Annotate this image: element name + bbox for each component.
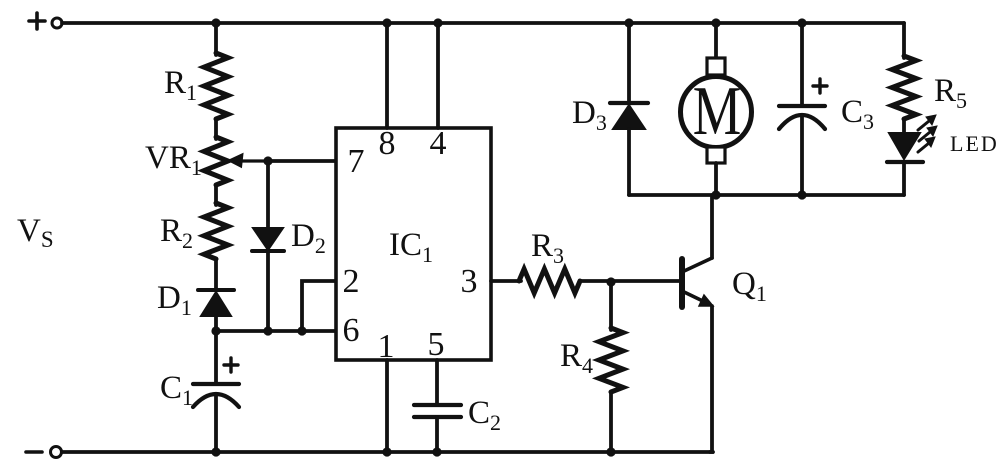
wire top rail to R1 xyxy=(214,23,218,55)
resistor R5 xyxy=(892,56,916,119)
wire node to R4 xyxy=(609,281,613,330)
diode D1 xyxy=(198,290,234,316)
potentiometer VR1 xyxy=(204,137,268,185)
junction ground / C1 xyxy=(211,447,220,456)
wire VR1 to R2 xyxy=(214,185,218,205)
motor M xyxy=(681,23,752,195)
junction base / R4 xyxy=(606,277,615,286)
wire C2 to ground rail xyxy=(435,417,439,452)
transistor Q1 xyxy=(682,258,713,307)
wire pin 1 to ground rail xyxy=(385,360,389,452)
junction load rail / C3 xyxy=(797,190,806,199)
wire R4 to ground rail xyxy=(609,392,613,452)
op-amp U1 / timer IC1 box xyxy=(336,128,491,360)
svg-text:5: 5 xyxy=(428,326,445,363)
svg-text:LED: LED xyxy=(950,131,999,156)
junction top rail / pin4 xyxy=(433,18,442,27)
capacitor C2 xyxy=(414,405,461,417)
wire R3 to base xyxy=(580,279,681,283)
junction node 6 / D2 xyxy=(263,326,272,335)
wire wiper node to D2 xyxy=(266,161,270,228)
plus terminal xyxy=(29,13,62,29)
svg-text:4: 4 xyxy=(430,125,447,162)
svg-text:1: 1 xyxy=(378,328,395,365)
resistor R2 xyxy=(204,203,228,259)
diode D3 xyxy=(610,103,648,129)
capacitor C3 xyxy=(779,23,827,195)
wire top rail to D3 xyxy=(627,23,631,103)
node wire to pin 6 xyxy=(216,329,336,333)
junction load rail / motor xyxy=(711,190,720,199)
junction top rail / R1 xyxy=(211,18,220,27)
wire D1 to node 6 xyxy=(214,316,218,331)
wire R2 to D1 xyxy=(214,259,218,290)
wire jog to pin 2 xyxy=(302,281,336,331)
junction ground / pin1 xyxy=(382,447,391,456)
junction wiper / D2 xyxy=(263,156,272,165)
resistor R4 xyxy=(599,328,623,392)
wire pin 7 to wiper xyxy=(268,159,336,163)
junction top rail / C3 xyxy=(797,18,806,27)
junction top rail / motor xyxy=(711,18,720,27)
wire R5 to LED xyxy=(902,119,906,133)
wire collector to motor node xyxy=(710,195,714,258)
svg-text:3: 3 xyxy=(461,263,478,300)
minus terminal xyxy=(26,447,62,458)
junction node 6 / C1 xyxy=(211,326,220,335)
resistor R3 xyxy=(519,269,580,293)
wire top rail corner to R5 xyxy=(902,23,906,58)
load bottom rail wire xyxy=(629,193,904,197)
svg-text:M: M xyxy=(693,72,742,150)
wire R1 to VR1 xyxy=(214,119,218,139)
capacitor C1 xyxy=(193,331,239,452)
junction node 6 / pin2 jog xyxy=(297,326,306,335)
resistor R1 xyxy=(204,53,228,119)
diode D2 xyxy=(252,228,284,251)
svg-text:8: 8 xyxy=(379,125,396,162)
wire pin 4 to top rail xyxy=(436,23,440,128)
wire pin 3 to R3 xyxy=(491,279,521,283)
junction ground / C2 xyxy=(432,447,441,456)
bottom ground rail wire xyxy=(62,450,713,454)
top supply rail wire xyxy=(62,21,904,25)
svg-text:7: 7 xyxy=(348,143,365,180)
wire pin 8 to top rail xyxy=(385,23,389,128)
svg-text:6: 6 xyxy=(343,312,360,349)
wire emitter to ground rail xyxy=(710,306,712,452)
junction top rail / D3 xyxy=(624,18,633,27)
LED diode xyxy=(887,115,937,195)
junction top rail / pin8 xyxy=(382,18,391,27)
wire D3 to load rail xyxy=(627,129,631,195)
wire pin 5 to C2 xyxy=(435,360,439,404)
svg-text:2: 2 xyxy=(343,263,360,300)
wire D2 to node 6 xyxy=(266,251,270,331)
junction ground / R4 xyxy=(606,447,615,456)
